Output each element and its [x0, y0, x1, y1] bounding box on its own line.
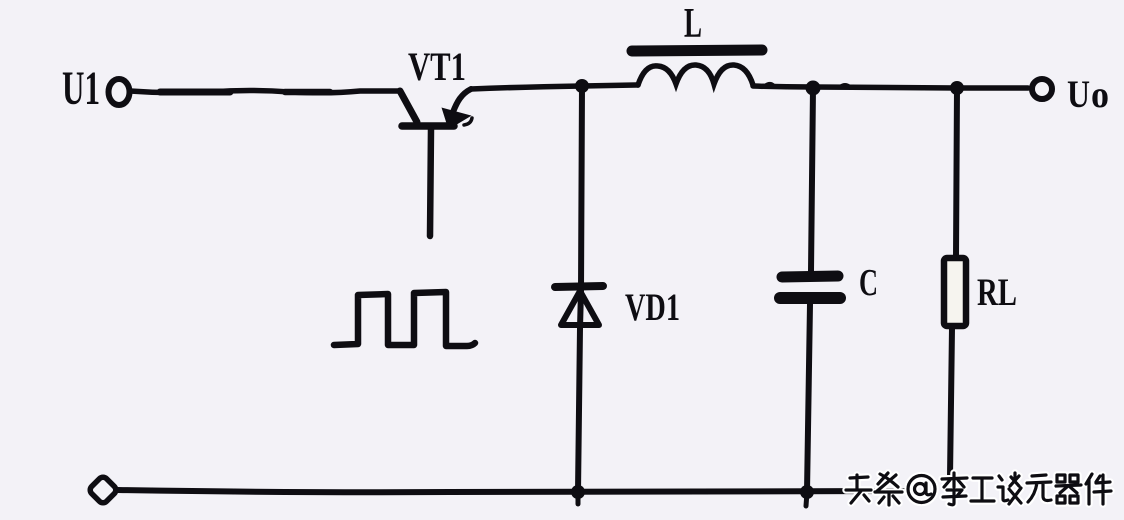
wire: bottom rail — [118, 490, 908, 492]
wire: inductor to output terminal — [753, 86, 1028, 88]
diode VD1 triangle (anode, pointing up) — [561, 291, 599, 325]
transistor VT1 arrowhead — [443, 109, 469, 128]
svg-text:RL: RL — [977, 271, 1017, 314]
svg-text:VT1: VT1 — [408, 44, 466, 89]
capacitor C bottom plate — [780, 292, 840, 304]
transistor VT1 base lead (down) — [430, 129, 431, 236]
wire: diode to bottom rail — [578, 328, 580, 492]
svg-text:L: L — [684, 1, 702, 47]
pulse waveform (base drive) — [334, 292, 475, 346]
wire: switch node down to diode — [580, 86, 582, 328]
wire: capacitor to bottom rail — [807, 304, 810, 492]
wire: U1 terminal to transistor emitter — [130, 91, 400, 93]
svg-text:VD1: VD1 — [625, 286, 680, 329]
transistor VT1 base bar — [402, 122, 454, 130]
node: junction dot at switch node (diode branch) — [575, 79, 589, 93]
node: junction dot RL branch — [950, 81, 964, 95]
wire: resistor to bottom (ends at watermark) — [950, 328, 952, 477]
svg-text:o: o — [1091, 74, 1109, 116]
wire: output node down to resistor RL — [956, 88, 957, 257]
node: bottom junction (diode) — [571, 485, 585, 499]
wire: transistor collector to inductor — [471, 85, 638, 89]
node: junction dot capacitor branch — [806, 81, 821, 96]
transistor VT1 collector curve — [453, 89, 471, 112]
transistor VT1 arrow hook — [464, 118, 472, 125]
terminal Uo (output circle) — [1032, 79, 1052, 99]
svg-text:U: U — [1067, 73, 1090, 116]
diode VD1 cathode bar — [555, 286, 603, 287]
node: bottom junction (capacitor) — [800, 485, 814, 499]
wire blob overlays (hand-drawn thickness variation) — [160, 89, 230, 96]
resistor RL body — [944, 258, 966, 326]
inductor L core bar — [632, 50, 762, 51]
svg-text:C: C — [859, 262, 878, 304]
terminal: bottom-left diamond — [88, 475, 118, 505]
svg-text:U1: U1 — [62, 62, 100, 115]
transistor Q VT1: emitter slant — [400, 91, 417, 122]
wire: output node down to capacitor — [811, 88, 813, 271]
terminal U1 (input circle) — [109, 79, 130, 105]
inductor L winding humps — [638, 65, 753, 85]
capacitor C top plate — [782, 276, 838, 277]
